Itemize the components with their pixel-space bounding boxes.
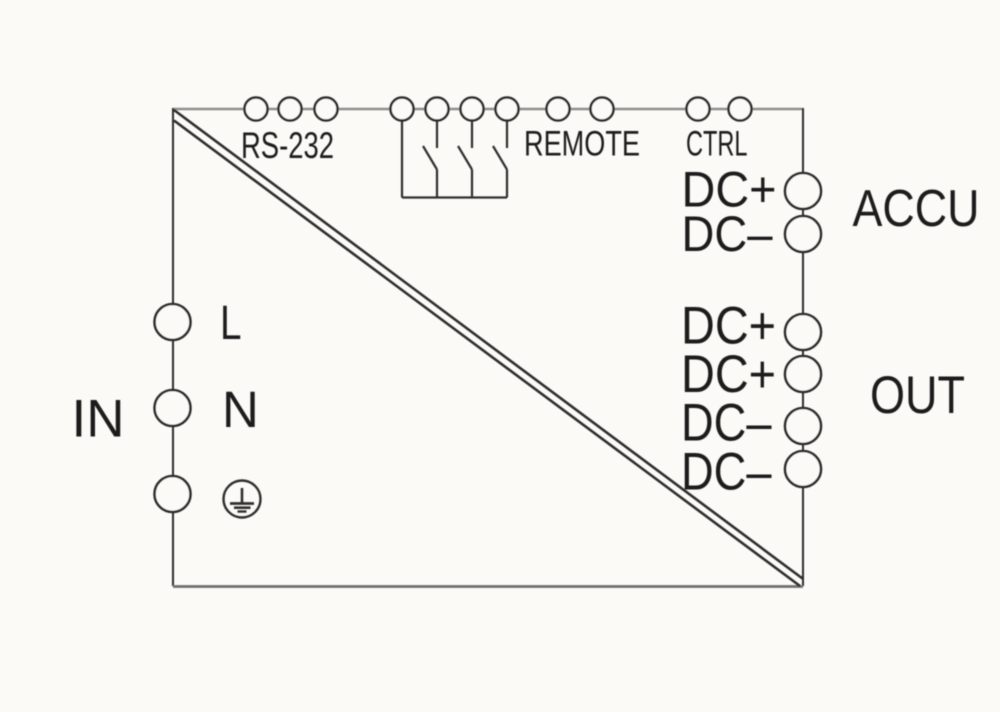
switch S1 — [423, 121, 437, 198]
terminal L — [155, 304, 191, 340]
wire left edge (input rail) — [172, 108, 174, 586]
terminal RS-232 pin 2 — [279, 98, 302, 121]
terminal OUT DC+ 2 — [785, 356, 821, 392]
terminal switch pin 4 — [496, 98, 519, 121]
svg-text:ACCU: ACCU — [853, 180, 980, 238]
terminal ACCU DC- — [785, 216, 821, 252]
terminal PE — [155, 476, 191, 512]
svg-text:CTRL: CTRL — [686, 125, 748, 164]
switch S3 — [493, 121, 507, 198]
svg-text:IN: IN — [72, 390, 125, 449]
svg-text:N: N — [222, 381, 259, 438]
terminal OUT DC+ 1 — [785, 314, 821, 350]
svg-text:L: L — [220, 297, 242, 350]
terminal OUT DC- 2 — [785, 451, 821, 487]
terminal switch pin 3 — [461, 98, 484, 121]
terminal switch pin 1 — [391, 98, 414, 121]
svg-text:DC–: DC– — [681, 443, 772, 502]
terminal REMOTE pin 2 — [591, 98, 614, 121]
terminal CTRL pin 2 — [729, 98, 752, 121]
svg-text:DC–: DC– — [682, 206, 773, 262]
switch S2 — [458, 121, 472, 198]
terminal N — [155, 390, 191, 426]
wire bottom edge — [173, 585, 803, 588]
wire top bus — [173, 108, 803, 111]
terminal OUT DC- 1 — [785, 408, 821, 444]
terminal RS-232 pin 3 — [315, 98, 338, 121]
diagonal divider lower line — [174, 121, 800, 587]
terminal switch pin 2 — [426, 98, 449, 121]
ground PE symbol — [224, 481, 261, 518]
terminal ACCU DC+ — [785, 173, 821, 209]
wire right edge (output rail) — [802, 108, 804, 586]
power supply body outline — [173, 108, 803, 587]
svg-text:RS-232: RS-232 — [241, 125, 334, 166]
diagonal divider upper line — [174, 110, 803, 579]
wire switch return — [401, 121, 403, 198]
terminal CTRL pin 1 — [687, 98, 710, 121]
svg-text:OUT: OUT — [870, 366, 965, 425]
terminal RS-232 pin 1 — [245, 98, 268, 121]
wire switch bottom bus — [402, 196, 507, 198]
svg-text:REMOTE: REMOTE — [524, 125, 640, 164]
terminal REMOTE pin 1 — [547, 98, 570, 121]
